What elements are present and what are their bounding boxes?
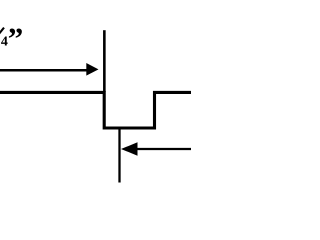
svg-text:”: ”	[8, 20, 23, 55]
upper dimension arrowhead	[86, 63, 98, 76]
lower dimension line (points left)	[137, 148, 193, 150]
dimension label ¼”: denominator 4	[1, 34, 8, 49]
upper extension line (at groove left wall)	[103, 30, 106, 92]
upper dimension line (points right)	[0, 69, 88, 72]
groove profile (left surface, left wall, bottom, right wall, right surface)	[0, 92, 193, 128]
lower extension line (below groove bottom)	[118, 129, 120, 183]
lower dimension arrowhead	[121, 142, 138, 155]
dimension label ¼”: inch mark (right double quote)	[8, 20, 23, 55]
dimension label ¼” (clipped at left edge): fraction slash	[0, 28, 4, 35]
